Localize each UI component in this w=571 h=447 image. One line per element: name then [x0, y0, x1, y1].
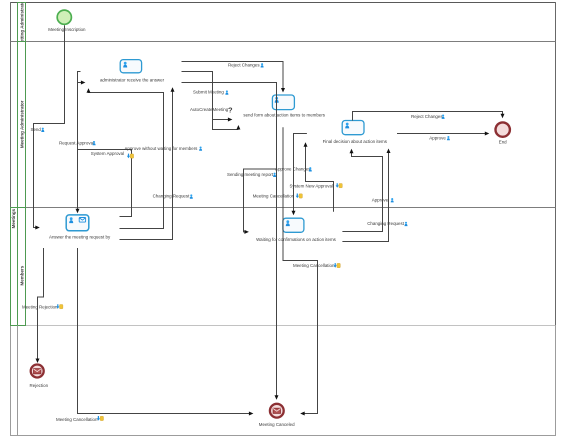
wire W12 into Waiting box: [294, 134, 307, 212]
wire W9 AutoCreateMeeting arrow: [213, 119, 229, 121]
svg-text:Reject Changes: Reject Changes: [228, 63, 260, 68]
pool label cell: Meetings: [11, 208, 18, 326]
bottom gutter column: [17, 326, 19, 436]
svg-text:Final decision about action it: Final decision about action items: [323, 139, 388, 144]
wire W18 to Rejection event: [38, 248, 44, 359]
wire W5 answer label up arrow x=172.6: [120, 92, 173, 240]
svg-text:Meeting Rejection: Meeting Rejection: [22, 305, 58, 310]
lane separator line y=207.7: [11, 207, 556, 209]
svg-text:Approve: Approve: [429, 135, 446, 140]
wire W10 long vertical to Meeting Canceled top: [182, 83, 277, 396]
svg-text:System Approval: System Approval: [91, 151, 124, 156]
wire W19 answer label to Meeting Canceled label: [78, 248, 250, 414]
svg-text:Answer the meeting request by: Answer the meeting request by: [49, 234, 111, 239]
svg-text:Meeting Cancellation: Meeting Cancellation: [56, 417, 98, 422]
wire W4 answer label up to admin label: [89, 92, 164, 229]
svg-text:AutoCreateMeeting: AutoCreateMeeting: [190, 107, 229, 112]
wire W2 Request Approval: admin box to answer box: [78, 72, 81, 210]
svg-text:Meeting Cancellation: Meeting Cancellation: [253, 193, 295, 198]
svg-text:Changing Request: Changing Request: [367, 221, 405, 226]
svg-text:Members: Members: [20, 265, 25, 285]
wire W3 short arrow to admin label: [78, 82, 82, 84]
svg-text:Meeting Cancellation: Meeting Cancellation: [293, 263, 335, 268]
svg-text:System New Approval: System New Approval: [290, 183, 333, 188]
svg-text:Meeting Inscription: Meeting Inscription: [48, 27, 86, 32]
svg-text:Request Approval: Request Approval: [59, 140, 94, 145]
wire W11 send form label to Meeting Canceled right: [283, 127, 318, 413]
wire W14 Reject Changes to End top: [353, 112, 503, 121]
svg-text:Meeting Administrator: Meeting Administrator: [20, 100, 25, 148]
svg-text:send form about action items t: send form about action items to members: [243, 113, 325, 118]
task box: Waiting for confirmations on action items: [283, 218, 304, 232]
svg-text:End: End: [499, 140, 507, 145]
svg-text:Reject Changes: Reject Changes: [411, 114, 443, 119]
lane separator line y=41.7: [11, 41, 556, 43]
svg-text:Waiting for confirmations on a: Waiting for confirmations on action item…: [256, 237, 337, 242]
svg-text:?: ?: [228, 106, 233, 115]
wire W15 Approve to End left: [397, 133, 485, 135]
svg-text:Approve Changes: Approve Changes: [275, 167, 311, 172]
lane label cell: Members: [18, 208, 26, 326]
wire W8 Submit Meeting: [182, 72, 239, 130]
message end event Meeting Canceled: [270, 404, 284, 418]
wire W16 waiting label to final decision label left: [342, 152, 382, 231]
wire W1 Send: start event to answer task: [34, 25, 65, 227]
svg-text:Approve without waiting for me: Approve without waiting for members: [124, 146, 198, 151]
task box: administrator receive the answer: [120, 60, 141, 73]
task box: Final decision about action items: [342, 121, 364, 135]
svg-text:Meetings: Meetings: [11, 208, 16, 228]
task box: send form about action items to members: [272, 95, 294, 110]
message end event Rejection: [31, 365, 44, 378]
end event End: [496, 122, 510, 136]
svg-text:Changing Request: Changing Request: [153, 194, 191, 199]
svg-text:Send: Send: [31, 127, 42, 132]
lane label cell: Meeting Administrator: [18, 42, 26, 208]
svg-text:Approve: Approve: [372, 197, 389, 202]
task box: answer the meeting request by (user + receive icons): [66, 215, 89, 231]
wire W13 System New Approval corner: [306, 146, 334, 212]
svg-text:Submit Meeting: Submit Meeting: [193, 90, 224, 95]
lane separator line y=325.5: [11, 325, 556, 327]
wire Sending meeting report: down to Waiting label: [244, 169, 277, 232]
svg-text:Setting Administrator: Setting Administrator: [20, 0, 25, 45]
wire W17 waiting label to final decision label right: [342, 152, 388, 241]
wire W6 System Approval: [78, 150, 132, 217]
wire W7 Reject Changes to send form box: [182, 62, 284, 90]
svg-text:Rejection: Rejection: [30, 383, 49, 388]
svg-text:administrator receive the answ: administrator receive the answer: [100, 77, 165, 82]
svg-text:Sending meeting report: Sending meeting report: [227, 172, 274, 177]
lane label cell: Setting Administrator: [18, 3, 26, 42]
start event Meeting Inscription: [57, 10, 71, 24]
svg-text:Meeting Canceled: Meeting Canceled: [259, 422, 295, 427]
